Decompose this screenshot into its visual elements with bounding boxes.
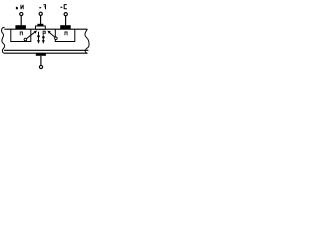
wire substrate lead	[40, 56, 42, 66]
label p (induced channel under gate)	[43, 31, 46, 35]
wire surface line of substrate	[4, 28, 87, 30]
n-region drain (right box)	[55, 29, 75, 41]
contact source (black bar)	[15, 25, 26, 29]
label +I (source terminal)	[16, 7, 17, 9]
terminal source circle	[20, 12, 23, 15]
wire right break edge of substrate	[85, 29, 89, 53]
wire bottom metallization line	[4, 52, 87, 54]
label -C (drain terminal)	[61, 6, 63, 8]
label n (drain region)	[65, 32, 68, 36]
electron symbol 2 pushed down under gate	[42, 35, 44, 41]
arrow hole moving toward channel (up-right)	[27, 32, 35, 38]
electron symbol 1 pushed down under gate	[38, 32, 40, 41]
wire substrate bottom edge	[4, 49, 88, 51]
terminal drain circle	[64, 13, 67, 16]
wire drain lead	[65, 16, 67, 26]
wire source lead	[20, 16, 22, 26]
arrow hole moving toward channel (up-left)	[49, 32, 55, 37]
oxide layer under gate	[36, 26, 46, 29]
wire left break edge of substrate	[2, 27, 5, 53]
wire gate lead	[40, 16, 42, 24]
hole symbol in drain region	[55, 37, 58, 40]
label n (source region)	[20, 32, 23, 36]
terminal substrate circle	[39, 65, 42, 68]
label -Z (gate terminal)	[39, 7, 41, 9]
hole symbol in source region	[24, 38, 27, 41]
gate metal (black cap)	[37, 24, 43, 26]
terminal gate circle	[39, 12, 42, 15]
contact drain (black bar)	[60, 25, 70, 29]
n-region source (left box)	[11, 29, 31, 41]
contact substrate (black bar at bottom)	[36, 53, 46, 56]
